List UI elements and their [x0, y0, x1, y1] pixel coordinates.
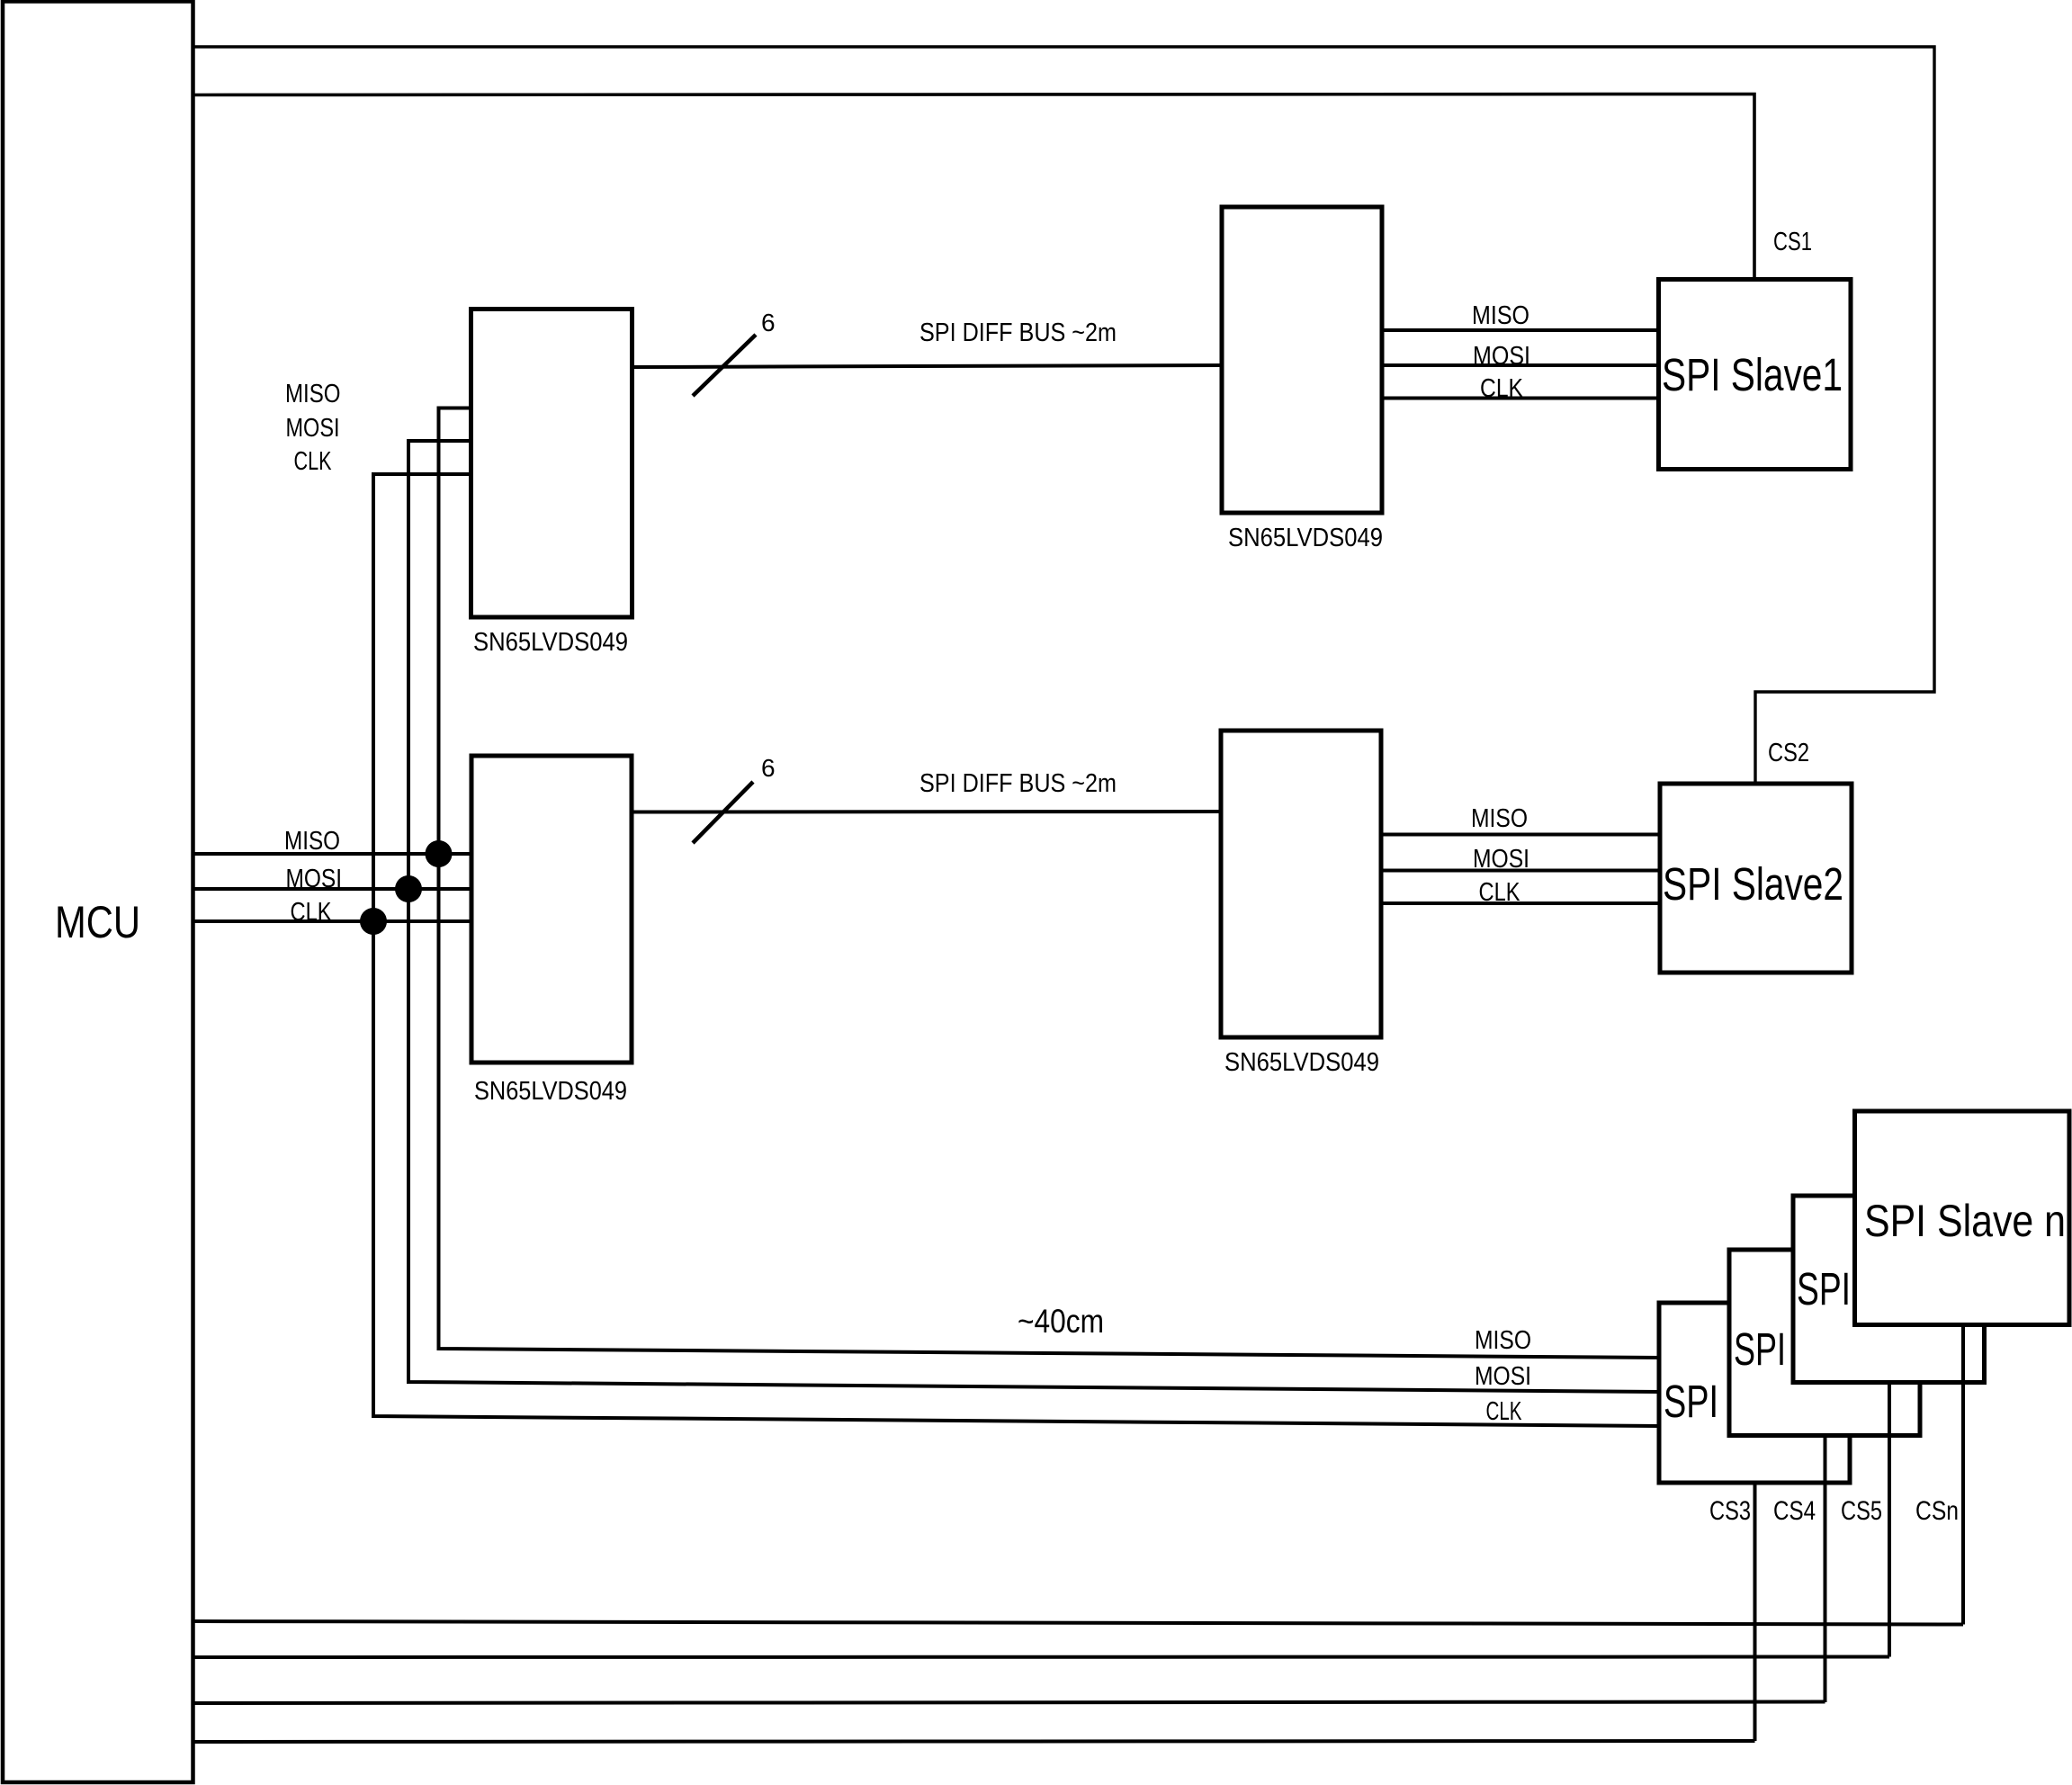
svg-text:SN65LVDS049: SN65LVDS049: [473, 628, 628, 657]
svg-text:MISO: MISO: [1475, 1326, 1531, 1355]
svg-text:CS3: CS3: [1709, 1496, 1751, 1526]
svg-text:CS5: CS5: [1841, 1496, 1882, 1526]
svg-text:MOSI: MOSI: [286, 414, 340, 443]
svg-text:SPI: SPI: [1664, 1376, 1718, 1427]
svg-text:SPI Slave n: SPI Slave n: [1864, 1196, 2066, 1246]
svg-text:MISO: MISO: [285, 380, 341, 408]
svg-text:6: 6: [761, 309, 776, 336]
svg-text:CLK: CLK: [1480, 374, 1524, 403]
svg-text:CSn: CSn: [1915, 1496, 1959, 1526]
svg-text:SN65LVDS049: SN65LVDS049: [474, 1077, 627, 1106]
svg-text:MISO: MISO: [284, 827, 340, 856]
svg-text:MOSI: MOSI: [1473, 342, 1530, 371]
svg-text:CLK: CLK: [294, 447, 332, 476]
svg-text:MISO: MISO: [1471, 804, 1528, 833]
svg-text:SN65LVDS049: SN65LVDS049: [1224, 1048, 1379, 1077]
svg-text:SPI Slave1: SPI Slave1: [1662, 349, 1843, 400]
svg-text:CS2: CS2: [1768, 739, 1809, 767]
svg-text:SPI Slave2: SPI Slave2: [1663, 858, 1843, 910]
svg-text:MOSI: MOSI: [1473, 845, 1529, 874]
svg-text:CLK: CLK: [1479, 878, 1521, 907]
svg-text:CS1: CS1: [1773, 228, 1812, 256]
svg-text:SN65LVDS049: SN65LVDS049: [1228, 524, 1383, 552]
svg-text:CS4: CS4: [1773, 1496, 1816, 1526]
svg-text:MOSI: MOSI: [286, 865, 343, 893]
svg-text:~40cm: ~40cm: [1018, 1303, 1104, 1340]
svg-text:6: 6: [761, 754, 776, 782]
svg-text:CLK: CLK: [291, 898, 333, 927]
svg-text:SPI: SPI: [1797, 1263, 1851, 1314]
svg-text:CLK: CLK: [1486, 1397, 1522, 1426]
svg-text:SPI DIFF BUS ~2m: SPI DIFF BUS ~2m: [919, 769, 1117, 798]
svg-text:SPI: SPI: [1734, 1323, 1786, 1375]
svg-text:SPI DIFF BUS ~2m: SPI DIFF BUS ~2m: [919, 318, 1117, 347]
svg-text:MCU: MCU: [55, 897, 140, 947]
svg-text:MISO: MISO: [1472, 301, 1529, 330]
svg-text:MOSI: MOSI: [1475, 1362, 1531, 1391]
